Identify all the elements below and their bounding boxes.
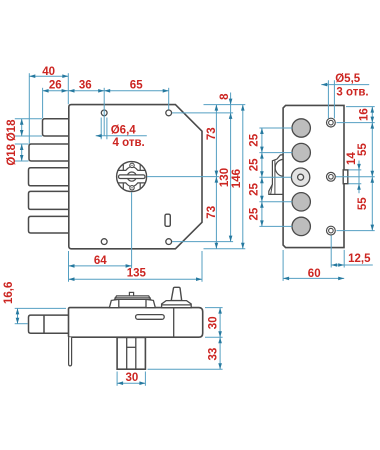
ext lines dia18-2 bbox=[15, 144, 29, 161]
svg-text:60: 60 bbox=[308, 268, 321, 280]
guard inner left line bbox=[126, 337, 128, 369]
ext line plate bottom right bbox=[204, 248, 246, 250]
dim line 8-130 bbox=[230, 93, 232, 242]
ext line side body right down bbox=[343, 250, 345, 268]
dim line dia18-1 bbox=[21, 119, 23, 136]
mounting hole bottom-right bbox=[166, 239, 172, 245]
svg-text:25: 25 bbox=[249, 183, 261, 196]
dim line dia18-2 bbox=[21, 144, 23, 161]
ext line case bottom right (bottom view) bbox=[205, 336, 223, 338]
ext lines side circles bbox=[259, 128, 292, 226]
bolt circle 2 bbox=[292, 143, 310, 161]
svg-text:30: 30 bbox=[207, 316, 219, 329]
arrows 16/55/55 bbox=[371, 107, 375, 113]
bolt circle 4 bbox=[292, 193, 310, 211]
ext line screw bottom right bbox=[337, 230, 375, 232]
ext line case top (bottom view) bbox=[15, 307, 66, 309]
rosette bar (bottom view) bbox=[115, 296, 151, 300]
arrows 30 bottom bbox=[117, 381, 123, 385]
ext line case top right (bottom view) bbox=[205, 307, 223, 309]
rosette top chord bbox=[118, 165, 145, 171]
lever inner contour bbox=[271, 160, 275, 194]
ext line plate bottom-left down bbox=[68, 251, 70, 282]
ext line plate left top bbox=[67, 73, 69, 104]
lever disc bbox=[275, 159, 292, 176]
svg-text:55: 55 bbox=[357, 197, 369, 210]
svg-text:16: 16 bbox=[359, 108, 371, 121]
dim line 40 bbox=[29, 75, 68, 77]
ext line bolt2 tip bbox=[28, 73, 30, 143]
screw hole top (side) bbox=[327, 118, 336, 127]
arrow dia5.5 bbox=[321, 83, 327, 87]
svg-text:14: 14 bbox=[346, 152, 358, 165]
svg-text:146: 146 bbox=[231, 169, 243, 188]
mounting hole top-right bbox=[166, 110, 172, 116]
ext lines dia18-1 bbox=[15, 119, 42, 136]
screw hole middle (side) bbox=[327, 172, 336, 181]
ext line plate top right bbox=[204, 104, 246, 106]
ext line hole TL bbox=[103, 88, 105, 136]
dim line 16-55-55 bbox=[371, 107, 373, 231]
svg-text:135: 135 bbox=[127, 268, 147, 280]
cylinder guard box bbox=[117, 337, 145, 369]
mounting hole bottom-left bbox=[101, 239, 107, 245]
ext line screw mid right bbox=[336, 176, 375, 178]
ext lines guard width bbox=[117, 372, 145, 386]
arrows 64 bbox=[69, 264, 75, 268]
knob flare (bottom view) bbox=[162, 301, 192, 308]
lock case body (side view) bbox=[283, 105, 344, 247]
ext line plate bottom-right down bbox=[201, 251, 203, 282]
deadbolt 4 bbox=[29, 191, 70, 209]
guard inner right line bbox=[135, 337, 137, 369]
rosette bottom screw bbox=[130, 186, 134, 190]
arrows dia18-2 bbox=[20, 144, 24, 150]
dim line 60 bbox=[283, 277, 344, 279]
deadbolt 5 bbox=[29, 216, 70, 233]
svg-text:26: 26 bbox=[49, 79, 62, 91]
dim line 135 bbox=[69, 278, 203, 280]
ext line screw hole bottom down bbox=[330, 235, 332, 267]
faceplate edge (bottom view) bbox=[69, 337, 72, 366]
dim line 25x4 bbox=[261, 128, 263, 226]
svg-text:130: 130 bbox=[219, 168, 231, 187]
key shaft circle bbox=[127, 172, 136, 181]
lever arm (side) bbox=[269, 155, 284, 195]
rosette stub (bottom view) bbox=[129, 292, 133, 296]
knob stem (bottom view) bbox=[171, 287, 182, 300]
ext line guard bottom right bbox=[148, 368, 223, 370]
bolt circle 1 bbox=[292, 119, 310, 137]
follower tab (side right) bbox=[343, 170, 348, 184]
dia 5.5 leader bbox=[321, 84, 369, 86]
cylinder inner ring bbox=[298, 174, 304, 180]
bolt (bottom view) bbox=[29, 315, 70, 333]
dia 5.5 edge lines bbox=[328, 80, 334, 118]
svg-text:Ø6,4: Ø6,4 bbox=[111, 124, 137, 136]
ext line side top right bbox=[346, 106, 375, 108]
keyhole slot bbox=[119, 175, 146, 179]
svg-text:8: 8 bbox=[219, 93, 231, 100]
arrows 146 bbox=[241, 105, 245, 111]
cylinder circle bbox=[291, 168, 309, 186]
dim line 26-36-65 bbox=[43, 90, 169, 92]
arrows 135 bbox=[69, 277, 75, 281]
svg-text:16,6: 16,6 bbox=[3, 282, 15, 304]
night latch slot bbox=[165, 214, 170, 226]
ext lines tab 14 bbox=[349, 170, 362, 184]
arrow dia6.4 bbox=[96, 134, 102, 138]
arrows 30 right bbox=[218, 308, 222, 314]
dim line 30 bottom bbox=[117, 382, 145, 384]
deadbolt 3 bbox=[29, 168, 70, 186]
ext line bolt axis (bottom view) bbox=[15, 323, 28, 325]
svg-text:3 отв.: 3 отв. bbox=[336, 86, 368, 98]
svg-text:25: 25 bbox=[249, 158, 261, 171]
dim line 146 bbox=[242, 105, 244, 249]
arrows 8/130 bbox=[229, 99, 233, 105]
ext line screw top right bbox=[337, 122, 375, 124]
dia 6.4 edge lines bbox=[101, 118, 107, 140]
dim line 64 bbox=[69, 265, 132, 267]
deadbolt 1 (short, top) bbox=[43, 119, 70, 136]
svg-text:40: 40 bbox=[42, 66, 55, 78]
svg-text:36: 36 bbox=[79, 79, 92, 91]
svg-text:55: 55 bbox=[357, 143, 369, 156]
guard key slot line bbox=[127, 346, 136, 348]
dim line 16.6 bbox=[17, 308, 19, 323]
keyhole rosette outer circle bbox=[117, 162, 147, 192]
rosette foot right (bottom view) bbox=[146, 299, 155, 307]
arrows 26/36/65 bbox=[43, 89, 49, 93]
arrows 12.5 bbox=[331, 263, 337, 267]
svg-text:73: 73 bbox=[206, 206, 218, 219]
case slot detail bbox=[136, 315, 165, 320]
arrows dia18-1 bbox=[20, 119, 24, 125]
svg-text:Ø5,5: Ø5,5 bbox=[335, 73, 361, 85]
svg-text:Ø18: Ø18 bbox=[6, 119, 18, 141]
ext line holes top right bbox=[172, 112, 233, 114]
svg-text:25: 25 bbox=[249, 207, 261, 220]
dim line 73-73 bbox=[215, 105, 217, 249]
arrows 73/73 bbox=[215, 105, 219, 111]
lock case plate (front view) bbox=[69, 105, 202, 249]
arrows 33 bbox=[218, 337, 222, 343]
arrows 25x4 bbox=[260, 128, 264, 134]
arrows 16.6 bbox=[16, 308, 20, 314]
svg-text:33: 33 bbox=[207, 348, 219, 361]
svg-text:65: 65 bbox=[130, 79, 143, 91]
svg-text:4 отв.: 4 отв. bbox=[112, 137, 144, 149]
arrows 14 (outside) bbox=[357, 164, 361, 170]
ext line rosette axis down bbox=[131, 192, 133, 268]
svg-text:25: 25 bbox=[249, 133, 261, 146]
ext line bolt1 tip bbox=[42, 88, 44, 118]
rosette top screw bbox=[130, 163, 134, 167]
svg-text:12,5: 12,5 bbox=[348, 253, 371, 265]
mounting hole top-left bbox=[101, 110, 107, 116]
ext line holes bottom right bbox=[172, 241, 233, 243]
svg-text:73: 73 bbox=[206, 127, 218, 140]
dim line 33 bbox=[219, 337, 221, 369]
rosette bottom chord bbox=[118, 183, 145, 189]
dia 6.4 leader bbox=[96, 135, 147, 137]
deadbolt 2 bbox=[29, 144, 70, 161]
bolt circle 5 bbox=[292, 217, 310, 235]
ext line rosette right bbox=[147, 176, 219, 178]
ext line side body left down bbox=[282, 250, 284, 281]
dim line 14 bbox=[358, 161, 360, 194]
screw hole bottom (side) bbox=[327, 226, 336, 235]
arrows 40 bbox=[29, 74, 35, 78]
arrowheads bbox=[16, 74, 374, 385]
case divider line bbox=[173, 308, 175, 338]
rosette foot left (bottom view) bbox=[109, 299, 118, 307]
dim line 30 right bbox=[219, 308, 221, 338]
ext line hole TR bbox=[168, 88, 170, 110]
svg-text:Ø18: Ø18 bbox=[6, 143, 18, 165]
dim line 12.5 bbox=[331, 264, 373, 266]
arrows 60 bbox=[283, 277, 289, 281]
case slab (bottom view) bbox=[69, 308, 203, 338]
svg-text:30: 30 bbox=[126, 372, 139, 384]
svg-text:64: 64 bbox=[94, 255, 107, 267]
